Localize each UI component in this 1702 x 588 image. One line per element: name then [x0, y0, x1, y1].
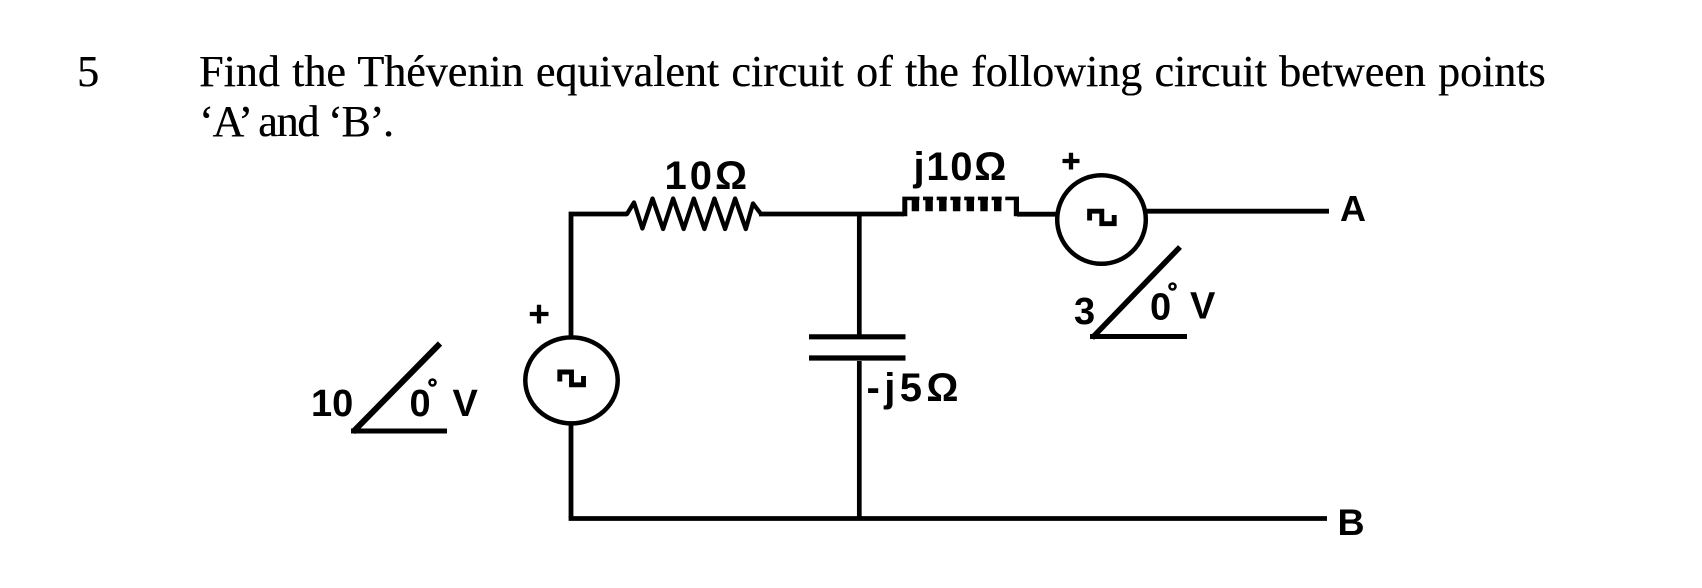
wire: left vertical from top-left corner down to source V1 top — [571, 214, 627, 336]
phasor angle symbol for V2 horizontal — [1090, 334, 1187, 339]
inductor L1 square-hump coil — [902, 197, 1019, 217]
svg-text:-j5Ω: -j5Ω — [867, 366, 963, 410]
sine squiggle inside V2 — [1090, 211, 1115, 224]
phasor angle symbol for V1 (10 angle 0 deg V) diagonal — [353, 344, 440, 433]
capacitor C1 branch: upper vertical wire — [857, 214, 862, 336]
wire: source V1 bottom to bottom rail — [569, 425, 574, 518]
svg-text:0: 0 — [1150, 287, 1171, 329]
AC source V1 (10 angle 0 V) circle — [525, 337, 617, 423]
plus polarity mark of V2 — [1063, 153, 1080, 170]
svg-text:10: 10 — [311, 383, 353, 425]
phasor angle symbol for V2 (3 angle 0 deg V) diagonal — [1092, 247, 1180, 338]
wire: source V2 to terminal A — [1146, 209, 1329, 214]
svg-text:10Ω: 10Ω — [665, 154, 751, 198]
capacitor C1 top plate — [809, 334, 906, 339]
svg-text:B: B — [1338, 501, 1365, 543]
phasor angle symbol for V1 horizontal — [351, 429, 447, 434]
svg-text:V: V — [453, 383, 479, 425]
resistor R1 10ohm zigzag — [627, 199, 761, 230]
capacitor C1 lower vertical wire — [857, 361, 862, 518]
wire: inductor to source V2 — [1017, 212, 1058, 217]
question text — [199, 47, 1546, 146]
question number 5 — [77, 47, 99, 97]
svg-text:V: V — [1190, 286, 1216, 328]
degree mark of V2 angle — [1170, 284, 1176, 290]
svg-text:A: A — [1340, 188, 1366, 229]
plus polarity mark of V1 — [530, 305, 549, 324]
capacitor C1 bottom plate — [809, 355, 906, 360]
AC source V2 (3 angle 0 V) circle — [1057, 175, 1146, 264]
svg-text:0: 0 — [410, 383, 431, 425]
svg-text:j10Ω: j10Ω — [913, 145, 1008, 189]
degree mark of V1 angle — [430, 380, 436, 386]
svg-text:3: 3 — [1074, 291, 1095, 333]
sine squiggle inside V1 — [560, 372, 584, 385]
wire: resistor to inductor (through capacitor junction node) — [759, 212, 904, 217]
wire: bottom rail from V1 to terminal B — [569, 516, 1327, 521]
